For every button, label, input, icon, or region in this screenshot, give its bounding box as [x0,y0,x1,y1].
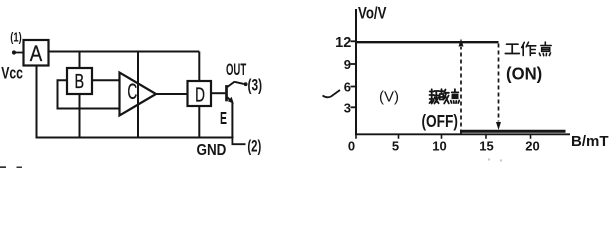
x tick labels [348,139,540,154]
curve low output level (thick) [460,130,566,133]
label (OFF) [422,112,458,131]
svg-text:3: 3 [344,100,351,115]
wire terminal1 to A [14,52,24,54]
wire B left sense (wraps below B to C lower input) [58,80,121,108]
svg-text:(ON): (ON) [506,63,542,84]
svg-text:(V): (V) [379,89,399,106]
stray checkmark mark [323,90,341,97]
terminal (3) dot [244,82,248,86]
transistor E emitter with arrow [227,97,234,104]
svg-text:Vo/V: Vo/V [358,4,387,23]
svg-text:A: A [30,43,43,67]
release point dashed line with up arrow [459,39,464,134]
label 释放点 (release point, drawn glyphs) [430,89,439,103]
svg-text:6: 6 [344,80,351,95]
svg-text:Vcc: Vcc [1,65,23,83]
svg-text:(1): (1) [10,31,22,45]
y tick 12 [335,35,356,51]
svg-text:C: C [127,79,137,104]
block D (Schmitt trigger) [188,81,212,106]
y tick 3 [344,100,356,115]
svg-text:D: D [195,84,205,106]
svg-text:B: B [74,70,84,93]
svg-text:E: E [220,109,227,129]
GND net label [197,142,227,159]
svg-text:(3): (3) [248,76,263,95]
curve high output level (Vo=12) [356,41,499,43]
operate point dashed line with down arrow [496,44,501,131]
block A (regulator) [24,40,49,66]
transistor E collector [227,82,244,87]
svg-text:(OFF): (OFF) [422,112,458,131]
pin label (3) [248,76,263,95]
E label [220,109,227,129]
svg-text:GND: GND [197,142,227,159]
x axis title B/mT [571,133,609,150]
label (ON) [506,63,542,84]
x ticks [356,134,531,139]
svg-text:0: 0 [348,139,355,154]
OUT label [226,61,247,79]
label 工作点 (operate point, drawn glyphs) [505,44,519,53]
wire bottom rail (GND rail) [36,137,234,139]
x axis [355,133,570,135]
block B (Hall element) [67,68,92,94]
svg-text:B/mT: B/mT [571,133,609,150]
svg-text:OUT: OUT [226,61,247,79]
wire emitter down to GND rail [231,103,233,138]
Vcc net label [1,65,23,83]
wire GND corner to terminal (2) [232,138,245,145]
svg-text:5: 5 [392,139,399,154]
svg-text:(2): (2) [247,137,261,156]
wire B drive line (vertical through B) [79,52,81,138]
wire D line (vertical through D) [198,52,200,138]
pin label (2) [247,137,261,156]
y axis title Vo/V [358,4,387,23]
terminal (1) dot [12,50,16,54]
wire top rail (Vcc rail) [49,51,200,53]
(V) unit label [379,89,399,106]
y tick 6 [344,80,356,95]
wire D output to transistor base [211,92,225,94]
svg-text:12: 12 [335,35,351,51]
svg-text:20: 20 [525,139,539,154]
pin label (1) [10,31,22,45]
y tick 9 [344,57,356,72]
transistor E base bar [225,85,228,101]
bottom edge cropped text specks [0,158,502,168]
svg-text:10: 10 [432,139,446,154]
svg-text:9: 9 [344,57,351,72]
wire C power line (vertical through C) [137,52,139,138]
wire B right sense to C upper input [92,79,120,81]
op-amp C (amplifier triangle) [120,73,157,116]
y axis [355,9,357,135]
svg-text:15: 15 [479,139,493,154]
wire left edge [36,65,38,138]
wire C output to D [156,93,188,95]
